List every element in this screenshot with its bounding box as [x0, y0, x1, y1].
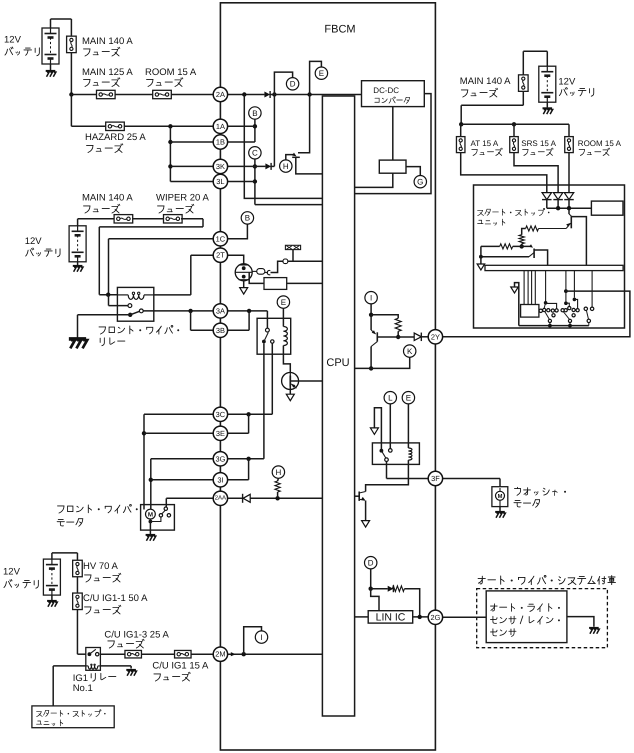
svg-text:2G: 2G	[430, 613, 440, 622]
svg-text:CPU: CPU	[326, 357, 349, 369]
svg-text:L: L	[388, 394, 393, 403]
svg-text:C/U IG1 15 A: C/U IG1 15 A	[152, 661, 209, 672]
svg-text:ROOM 15 A: ROOM 15 A	[578, 139, 622, 148]
svg-text:1A: 1A	[216, 122, 225, 131]
svg-text:H: H	[276, 468, 282, 477]
svg-text:HV 70 A: HV 70 A	[83, 561, 119, 572]
svg-text:E: E	[281, 298, 286, 307]
svg-text:H: H	[283, 162, 289, 171]
svg-text:MAIN 140 A: MAIN 140 A	[460, 76, 511, 87]
svg-text:M: M	[148, 512, 153, 519]
svg-text:MAIN 140 A: MAIN 140 A	[82, 36, 133, 47]
svg-text:3I: 3I	[217, 475, 223, 484]
svg-text:1C: 1C	[216, 234, 226, 243]
svg-text:B: B	[252, 109, 257, 118]
svg-text:2M: 2M	[215, 650, 225, 659]
svg-text:D: D	[368, 559, 374, 568]
svg-text:3F: 3F	[431, 474, 440, 483]
svg-text:LIN IC: LIN IC	[376, 611, 406, 623]
svg-text:HAZARD 25 A: HAZARD 25 A	[85, 132, 146, 143]
svg-text:AT 15 A: AT 15 A	[471, 139, 499, 148]
svg-text:C: C	[252, 149, 258, 158]
svg-text:12V: 12V	[25, 236, 43, 247]
svg-text:B: B	[245, 214, 250, 223]
svg-text:3E: 3E	[216, 429, 225, 438]
svg-text:SRS 15 A: SRS 15 A	[521, 139, 556, 148]
svg-text:1B: 1B	[216, 138, 225, 147]
svg-text:MAIN 140 A: MAIN 140 A	[82, 193, 133, 204]
svg-text:DC-DC: DC-DC	[373, 86, 399, 95]
svg-text:ROOM 15 A: ROOM 15 A	[145, 67, 197, 78]
svg-text:3K: 3K	[216, 162, 225, 171]
svg-text:3A: 3A	[216, 306, 225, 315]
svg-text:12V: 12V	[3, 567, 21, 578]
svg-text:D: D	[290, 80, 296, 89]
svg-text:3B: 3B	[216, 326, 225, 335]
svg-text:2AA: 2AA	[215, 494, 226, 501]
svg-text:2T: 2T	[216, 251, 225, 260]
svg-text:2A: 2A	[216, 90, 225, 99]
svg-text:WIPER 20 A: WIPER 20 A	[156, 193, 209, 204]
svg-text:I: I	[370, 294, 372, 303]
svg-text:3C: 3C	[216, 410, 226, 419]
svg-text:C/U IG1-3 25 A: C/U IG1-3 25 A	[104, 630, 169, 641]
svg-text:MAIN 125 A: MAIN 125 A	[82, 67, 133, 78]
svg-text:E: E	[406, 394, 411, 403]
svg-text:G: G	[417, 178, 423, 187]
svg-text:FBCM: FBCM	[324, 24, 355, 36]
svg-text:2Y: 2Y	[431, 332, 440, 341]
svg-text:No.1: No.1	[73, 683, 93, 694]
svg-text:12V: 12V	[4, 35, 22, 46]
svg-text:M: M	[498, 494, 503, 500]
svg-text:3G: 3G	[215, 454, 225, 463]
svg-text:12V: 12V	[558, 76, 576, 87]
svg-text:3L: 3L	[216, 177, 224, 186]
svg-text:C/U IG1-1 50 A: C/U IG1-1 50 A	[83, 593, 148, 604]
svg-text:K: K	[407, 347, 413, 356]
svg-text:I: I	[260, 633, 262, 642]
svg-text:E: E	[319, 69, 324, 78]
